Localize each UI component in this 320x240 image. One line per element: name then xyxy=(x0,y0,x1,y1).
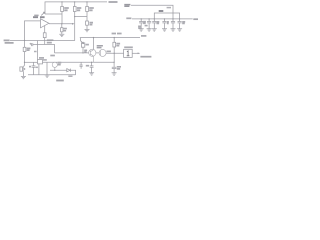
label between Q1 Q2 xyxy=(107,50,111,52)
arrowhead on op-amp output wire xyxy=(72,23,75,25)
label R1 value xyxy=(64,8,69,10)
node dot input row xyxy=(24,62,25,63)
capacitor C1 xyxy=(86,21,89,29)
amplifier box U2 xyxy=(124,49,133,57)
wire Q2 to box xyxy=(106,52,124,54)
resistor R4 xyxy=(23,47,26,62)
label near base start xyxy=(50,55,55,57)
op-amp U1 xyxy=(41,19,49,28)
node dot rail tr3 xyxy=(154,18,155,19)
node dot H7 join xyxy=(24,40,25,41)
plus mark C2 xyxy=(30,43,32,45)
wire H7 down to B1 xyxy=(37,41,39,60)
ground under C9 xyxy=(162,29,167,31)
capacitor C5 xyxy=(32,62,36,75)
label at H5 end xyxy=(141,35,146,37)
label Q3 xyxy=(58,63,62,65)
box B1 xyxy=(38,60,43,64)
label R3 value xyxy=(89,8,94,10)
transistor Q1 xyxy=(89,49,96,62)
digit 1 in U2 xyxy=(127,51,130,56)
ground under C4 xyxy=(112,73,117,75)
node dot R2 tap xyxy=(74,16,75,17)
label output xyxy=(140,56,151,58)
label B1 xyxy=(39,57,44,59)
label C6 value xyxy=(143,22,146,24)
capacitor C4 xyxy=(112,62,117,73)
capacitor C3 xyxy=(90,62,94,72)
label Q1 xyxy=(97,46,103,48)
ground under C6 xyxy=(139,29,144,31)
transistor Q2 xyxy=(99,49,106,56)
ground under R7 xyxy=(59,34,64,36)
node dot Q3 bottom xyxy=(54,70,55,71)
node dot R5 mid xyxy=(114,53,115,54)
ground mid xyxy=(45,75,50,77)
wire inverting input xyxy=(25,21,41,47)
label under feed xyxy=(167,7,171,9)
node dot rail tr1 xyxy=(141,18,142,19)
capacitor C10 xyxy=(171,19,175,29)
transistor Q3 xyxy=(52,62,57,70)
node dot rail tr2 xyxy=(148,18,149,19)
node dot R5 top xyxy=(114,37,115,38)
label P1 value xyxy=(86,44,89,46)
ground under C11 xyxy=(177,29,182,31)
label left of C6 xyxy=(138,26,141,28)
label U2 above xyxy=(124,46,133,48)
label C10 value xyxy=(182,22,185,24)
wire bottom rail xyxy=(28,74,76,76)
label C4 value xyxy=(117,67,121,69)
long left rail H7 xyxy=(10,40,75,42)
node dot rail tr4 xyxy=(164,18,165,19)
resistor R2 xyxy=(73,2,76,41)
label input net xyxy=(4,40,14,43)
ground under MK1 xyxy=(21,76,26,78)
arrowhead output xyxy=(138,53,141,55)
label R4 value xyxy=(27,48,31,50)
label left of B1 tail xyxy=(36,66,38,68)
wire to ground stub xyxy=(46,62,48,75)
wire input coupling row xyxy=(25,61,38,63)
node dot rail R2 xyxy=(74,1,75,2)
ground under C1 xyxy=(85,29,90,31)
wire node75 to R3 bottom xyxy=(75,16,87,18)
label C9 value xyxy=(167,22,169,24)
wire cap to corner xyxy=(33,44,45,46)
label bottom note xyxy=(56,80,64,82)
node dot base bias xyxy=(82,52,83,53)
resistor R6 column xyxy=(43,33,46,45)
label right of B1 xyxy=(43,59,47,61)
resistor R7 xyxy=(61,24,63,34)
node dot rail tr5 xyxy=(172,18,173,19)
wire op-amp bottom to RC column xyxy=(44,26,46,33)
wire node62 to node75 xyxy=(49,23,72,25)
wire diode row xyxy=(50,69,67,71)
node dot rail R1 xyxy=(61,1,62,2)
arrow into corner node xyxy=(41,12,44,15)
ground under C10 xyxy=(171,29,176,31)
node dot emitter row xyxy=(91,62,92,63)
label C1 value xyxy=(90,23,94,25)
label R2 value xyxy=(77,8,81,10)
node dot rail R3 xyxy=(86,1,87,2)
label before rail xyxy=(126,17,131,19)
label near corner arrow xyxy=(34,14,38,16)
node dot output xyxy=(61,23,62,24)
capacitor C6 xyxy=(139,19,143,29)
label U1 xyxy=(33,16,45,18)
capacitor C7 xyxy=(147,19,151,29)
label rail net name xyxy=(109,1,118,3)
label R6 value xyxy=(47,40,54,42)
node dot rail tr6 xyxy=(179,18,180,19)
capacitor C2 plates xyxy=(32,43,33,46)
ground under C7 xyxy=(147,29,152,31)
diode D1 xyxy=(67,69,76,75)
node dot collector xyxy=(93,37,94,38)
label IC top right xyxy=(159,10,164,12)
small network left stub xyxy=(80,62,83,69)
wire feedback to node xyxy=(45,13,62,15)
wire Q1 to Q2 xyxy=(96,52,99,54)
label C7 note xyxy=(145,25,148,27)
resistor R3 xyxy=(86,2,89,21)
wire B1 output row xyxy=(43,61,115,63)
label beside B1 feed wire xyxy=(34,51,37,53)
resistor R1 xyxy=(61,2,64,24)
capacitor C11 xyxy=(178,19,182,29)
wire feedback corner to Q1 base column xyxy=(45,45,55,53)
ground under C3 xyxy=(89,73,94,75)
label C8 value xyxy=(157,22,160,24)
resistor R5 xyxy=(113,38,116,63)
supply rail top right xyxy=(132,18,193,20)
wire bypass loop xyxy=(154,13,179,19)
wire U2 output xyxy=(132,52,139,54)
ground under C8 xyxy=(152,29,157,31)
label R5 value xyxy=(116,44,120,46)
label C3 xyxy=(86,65,89,67)
capacitor C9 xyxy=(162,19,166,29)
label above H5 xyxy=(112,33,122,35)
node dot C4 top xyxy=(113,62,114,63)
label C5 xyxy=(29,66,31,68)
label rail end xyxy=(193,18,198,20)
label +12V top right feed xyxy=(124,5,130,7)
potentiometer P1 xyxy=(80,38,85,53)
microphone MK1 xyxy=(20,62,25,76)
capacitor C8 xyxy=(152,19,156,29)
wire B1 tail to bottom rail xyxy=(38,64,40,75)
wire Q1 collector xyxy=(93,38,95,50)
supply line H5 xyxy=(80,37,140,39)
wire Q1 base xyxy=(55,52,89,54)
label left of Q1 xyxy=(84,50,87,52)
label under diode xyxy=(68,75,72,77)
wire top supply rail xyxy=(45,2,107,14)
wire +12V feed xyxy=(131,5,173,19)
label R7 value xyxy=(63,29,67,31)
